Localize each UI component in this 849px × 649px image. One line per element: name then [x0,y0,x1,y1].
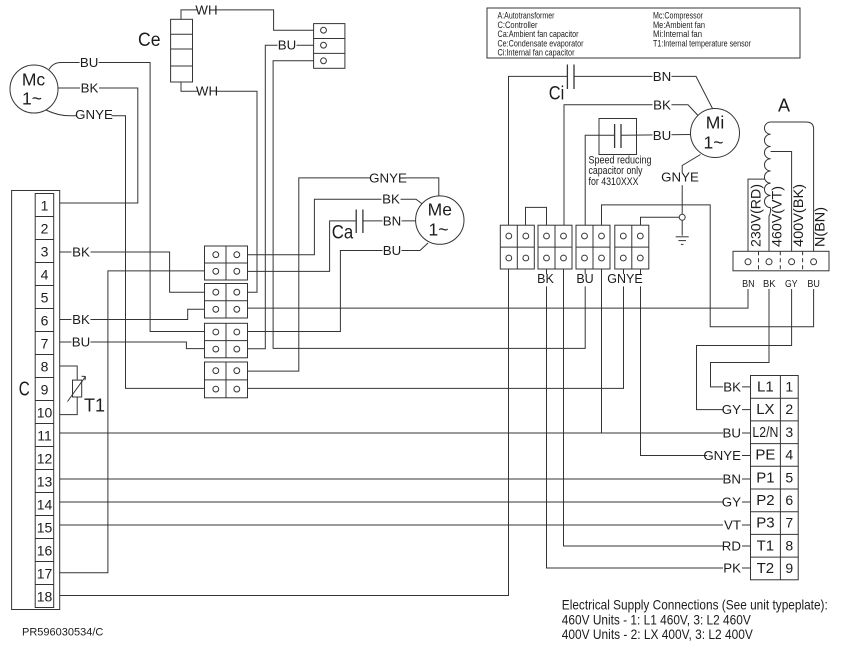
svg-text:Ci:Internal fan capacitor: Ci:Internal fan capacitor [498,48,575,58]
svg-text:GY: GY [785,278,798,290]
svg-text:for 4310XXX: for 4310XXX [589,176,639,188]
svg-text:GNYE: GNYE [369,170,407,185]
svg-text:T2: T2 [757,560,775,577]
svg-text:VT: VT [724,518,741,533]
svg-text:PK: PK [723,561,741,576]
svg-text:1: 1 [785,379,793,395]
svg-text:RD: RD [722,539,741,554]
svg-text:14: 14 [37,496,53,512]
svg-text:N(BN): N(BN) [812,207,827,247]
svg-text:BK: BK [81,80,99,95]
svg-text:BN: BN [742,278,755,290]
svg-text:9: 9 [785,560,793,576]
svg-text:6: 6 [785,492,793,508]
svg-text:P2: P2 [756,492,774,509]
svg-text:T1: T1 [84,396,105,416]
svg-text:BN: BN [723,472,741,487]
svg-text:17: 17 [37,565,53,581]
svg-text:1: 1 [41,197,49,213]
svg-text:BK: BK [72,245,90,260]
svg-text:GNYE: GNYE [703,448,741,463]
svg-text:BU: BU [576,272,593,286]
svg-text:LX: LX [756,401,774,418]
svg-text:BN: BN [653,69,671,84]
svg-text:GY: GY [722,495,741,510]
svg-text:5: 5 [785,469,793,485]
svg-text:8: 8 [41,358,49,374]
svg-text:Me: Me [428,200,452,220]
svg-text:BK: BK [382,192,400,207]
svg-text:GY: GY [722,402,741,417]
svg-text:BU: BU [72,335,90,350]
svg-text:GNYE: GNYE [607,272,642,286]
svg-text:230V(RD): 230V(RD) [748,184,763,247]
svg-text:16: 16 [37,542,53,558]
svg-text:1~: 1~ [704,133,724,153]
svg-text:P1: P1 [756,469,774,486]
svg-text:5: 5 [41,289,49,305]
svg-text:BN: BN [383,213,401,228]
svg-text:400V(BK): 400V(BK) [791,184,806,247]
svg-text:PE: PE [755,447,775,464]
svg-text:9: 9 [41,381,49,397]
svg-text:BU: BU [278,38,296,53]
svg-text:PR596030534/C: PR596030534/C [22,627,103,639]
svg-text:BK: BK [72,312,90,327]
svg-text:BU: BU [383,243,401,258]
svg-text:4: 4 [785,447,793,463]
svg-text:GNYE: GNYE [75,107,113,122]
svg-text:Ca: Ca [332,223,354,244]
svg-text:BK: BK [653,97,671,112]
svg-text:10: 10 [37,404,53,420]
svg-text:2: 2 [41,220,49,236]
svg-text:C: C [19,379,30,401]
svg-text:WH: WH [195,3,217,18]
svg-text:1~: 1~ [429,220,449,240]
svg-text:BU: BU [807,278,820,290]
svg-text:13: 13 [37,473,53,489]
svg-text:Mc: Mc [22,69,46,89]
svg-text:11: 11 [37,427,52,443]
svg-text:BK: BK [763,278,776,290]
svg-text:L1: L1 [757,379,774,396]
svg-text:2: 2 [785,401,793,417]
svg-text:Ci: Ci [549,84,565,105]
svg-text:T1: T1 [757,537,775,554]
svg-text:7: 7 [41,335,49,351]
svg-text:L2/N: L2/N [752,424,778,441]
svg-text:460V Units - 1: L1 460V, 3: L2: 460V Units - 1: L1 460V, 3: L2 460V [562,611,752,627]
svg-text:WH: WH [196,84,218,99]
svg-text:12: 12 [37,450,53,466]
svg-text:15: 15 [37,519,53,535]
svg-text:7: 7 [785,515,793,531]
svg-text:6: 6 [41,312,49,328]
svg-text:4: 4 [41,266,49,282]
svg-text:400V Units - 2: LX 400V, 3: L2: 400V Units - 2: LX 400V, 3: L2 400V [562,626,754,642]
svg-text:BU: BU [653,128,671,143]
svg-text:8: 8 [785,537,793,553]
svg-text:Mi: Mi [706,113,724,133]
svg-text:1~: 1~ [22,89,42,109]
svg-text:Ce: Ce [138,30,161,51]
svg-text:P3: P3 [756,515,774,532]
svg-text:BK: BK [723,380,741,395]
svg-text:18: 18 [37,588,53,604]
svg-text:BU: BU [80,55,98,70]
svg-text:3: 3 [41,243,49,259]
svg-text:460V(VT): 460V(VT) [769,186,784,247]
svg-text:BU: BU [723,426,741,441]
svg-text:BK: BK [537,272,554,286]
svg-text:Electrical Supply Connections: Electrical Supply Connections (See unit … [562,597,828,613]
svg-text:A: A [778,96,790,116]
svg-text:GNYE: GNYE [661,170,699,185]
svg-text:T1:Internal temperature sensor: T1:Internal temperature sensor [653,38,751,48]
svg-text:3: 3 [785,424,793,440]
